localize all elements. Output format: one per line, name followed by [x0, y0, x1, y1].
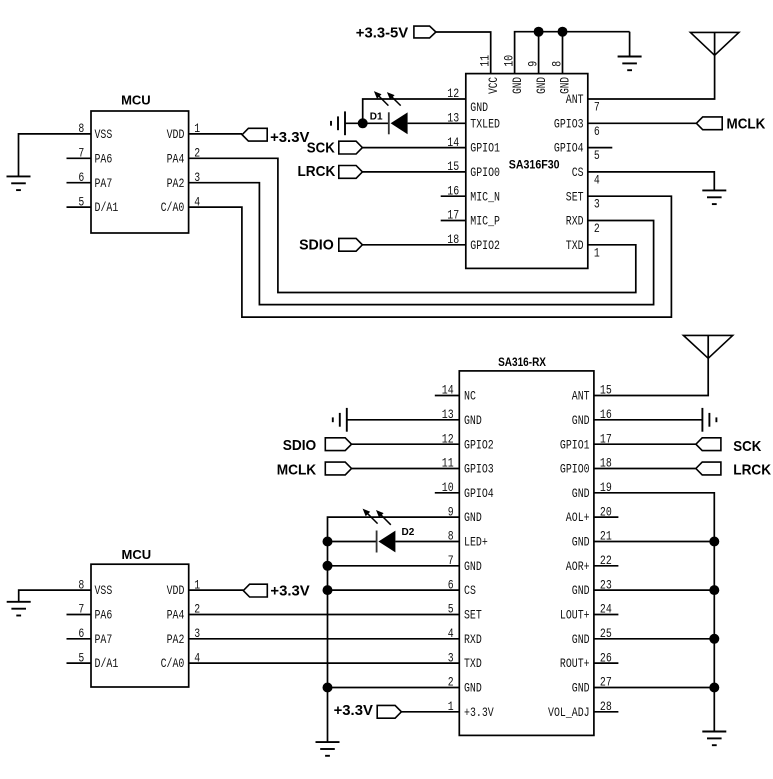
U3 pin 16 GND label [572, 413, 590, 428]
svg-text:MCU: MCU [122, 547, 152, 562]
wire SCK flag to U2 pin 14 [362, 147, 465, 149]
U2 pin 12 number [447, 86, 459, 101]
svg-text:PA7: PA7 [95, 176, 113, 191]
wire U2 pin 10 GND up [515, 32, 630, 74]
U3 pin 17 GPIO1 label [560, 437, 590, 452]
svg-text:C/A0: C/A0 [161, 200, 185, 215]
wire +3.3-5V flag to U2 VCC pin 11 [436, 32, 491, 74]
svg-text:SET: SET [566, 189, 584, 204]
label +3.3V (U4 VDD) [270, 582, 309, 599]
wire U3 pin 19 GND to right bus [594, 493, 714, 732]
U3 pin 14 NC label [464, 389, 476, 404]
label +3.3V (U1 VDD) [270, 129, 309, 146]
svg-text:SCK: SCK [307, 140, 335, 157]
U2 pin 4 CS label [572, 165, 584, 180]
IC U2 SA316F30 body [466, 74, 588, 269]
U4 pin 3 PA2 label [167, 632, 185, 647]
U1 pin 5 number [78, 194, 84, 209]
U1 pin 1 VDD label [167, 127, 185, 142]
port flag LRCK (bottom) [696, 462, 721, 475]
U3 pin 24 number [600, 602, 612, 617]
wire U2 pin 8 GND up [562, 32, 564, 74]
U3 pin 28 number [600, 699, 612, 714]
ground at U4 VSS [7, 601, 31, 615]
antenna E1 (top) [690, 32, 739, 55]
U1 pin 7 PA6 label [95, 151, 113, 166]
U2 pin 16 number [447, 183, 459, 198]
svg-text:3: 3 [594, 197, 600, 212]
wire U3 pin 21 GND to right bus [594, 541, 714, 543]
svg-text:RXD: RXD [566, 214, 584, 229]
U3 pin 20 AOL+ stub wire [594, 516, 619, 518]
svg-text:LOUT+: LOUT+ [560, 608, 590, 623]
wire U1 VSS to ground [19, 134, 92, 177]
svg-text:TXLED: TXLED [470, 116, 500, 131]
U4 pin 5 D/A1 label [95, 656, 119, 671]
U2 part name SA316F30 [509, 157, 560, 171]
svg-text:VOL_ADJ: VOL_ADJ [548, 705, 590, 720]
U3 pin 22 number [600, 553, 612, 568]
U3 pin 23 number [600, 577, 612, 592]
U3 pin 1 +3.3V label [464, 705, 494, 720]
wire left bus to D2 [328, 541, 377, 543]
U2 pin 2 number [594, 221, 600, 236]
U3 pin 21 GND label [572, 535, 590, 550]
U2 pin 1 TXD label [566, 238, 584, 253]
svg-text:PA6: PA6 [95, 608, 113, 623]
power flag +3.3V (U1 VDD) [242, 128, 267, 141]
svg-text:GPIO3: GPIO3 [464, 462, 494, 477]
wire net C/A0-SET [189, 196, 672, 317]
U4 pin 1 VDD label [167, 583, 185, 598]
junction left bus pin 6 row [323, 585, 333, 595]
wire U3 GPIO1 to SCK flag [594, 443, 696, 445]
label LRCK (top) [298, 163, 336, 180]
U2 pin 14 number [447, 135, 459, 150]
svg-text:4: 4 [594, 172, 600, 187]
svg-text:GND: GND [572, 681, 590, 696]
wire U2 pin 12 GND left [363, 99, 466, 123]
U3 pin 22 AOR+ stub wire [594, 565, 619, 567]
U4 pin 5 number [78, 650, 84, 665]
wire U3 pin 25 GND to right bus [594, 638, 714, 640]
junction right bus pin 23 row [709, 585, 719, 595]
wire junction to ground (left) [345, 122, 363, 124]
svg-text:ANT: ANT [572, 389, 590, 404]
U2 pin 15 GPIO0 label [470, 165, 500, 180]
svg-text:+3.3V: +3.3V [464, 705, 494, 720]
port flag SDIO to GPIO2 [339, 238, 363, 251]
U3 part name SA316-RX [498, 355, 546, 369]
wire LRCK flag to U2 pin 15 [362, 171, 465, 173]
U3 pin 21 number [600, 529, 612, 544]
svg-text:GND: GND [572, 535, 590, 550]
U2 pin 5 GPIO4 stub wire [588, 147, 613, 149]
U4 pin 1 number [194, 577, 200, 592]
wire net PA4-SET [189, 614, 460, 616]
wire left bus to U3 pin 2 GND [328, 687, 460, 689]
U2 pin 1 number [594, 245, 600, 260]
U3 pin 4 number [448, 626, 454, 641]
junction pin 8 top [558, 27, 568, 37]
svg-text:SA316F30: SA316F30 [509, 157, 560, 171]
svg-text:MIC_P: MIC_P [470, 214, 500, 229]
U3 pin 13 GND label [464, 413, 482, 428]
port flag SCK (bottom) [696, 438, 721, 451]
svg-text:VCC: VCC [486, 77, 501, 94]
U2 pin 18 number [447, 232, 459, 247]
svg-text:GPIO0: GPIO0 [470, 165, 500, 180]
U3 pin 18 number [600, 456, 612, 471]
U2 pin 17 number [447, 208, 459, 223]
ground (rotated left) at D1 [331, 111, 345, 135]
U3 pin 24 LOUT+ label [560, 608, 590, 623]
svg-text:PA7: PA7 [95, 632, 113, 647]
U3 pin 17 number [600, 431, 612, 446]
wire net PA4-TXD [189, 158, 636, 292]
U3 pin 12 number [442, 431, 454, 446]
svg-text:TXD: TXD [566, 238, 584, 253]
U3 pin 23 GND label [572, 583, 590, 598]
U3 pin 3 TXD label [464, 656, 482, 671]
svg-text:GPIO2: GPIO2 [464, 437, 494, 452]
U4 pin 6 number [78, 626, 84, 641]
svg-text:GND: GND [558, 77, 573, 94]
junction right bus pin 25 row [709, 634, 719, 644]
port flag SCK to GPIO1 [339, 141, 363, 154]
label SDIO (bottom) [283, 437, 317, 454]
wire U4 VDD to +3.3V flag [189, 589, 244, 591]
U4 pin 6 PA7 stub wire [67, 638, 92, 640]
label LRCK (bottom) [733, 461, 771, 478]
wire net PA2-RXD [189, 638, 460, 640]
junction right bus pin 21 row [709, 537, 719, 547]
svg-text:TXD: TXD [464, 656, 482, 671]
U2 top pin 9 rotated number [525, 61, 540, 67]
svg-text:4: 4 [448, 626, 454, 641]
U1 pin 6 PA7 stub wire [67, 182, 92, 184]
D2 emission arrow 1 [363, 509, 378, 524]
svg-text:SDIO: SDIO [299, 236, 334, 253]
D1 emission arrow 1 [374, 91, 389, 106]
svg-text:RXD: RXD [464, 632, 482, 647]
svg-text:GPIO2: GPIO2 [470, 238, 500, 253]
U2 pin 6 number [594, 124, 600, 139]
U2 pin 12 GND label [470, 100, 488, 115]
MCU U4 (bottom) body [91, 564, 189, 687]
U2 top pin 11 rotated number [478, 55, 493, 67]
label D1 [370, 111, 383, 122]
U1 pin 7 PA6 stub wire [67, 157, 92, 159]
wire net C/A0-TXD [189, 662, 460, 664]
svg-text:D2: D2 [402, 527, 415, 538]
U4 pin 7 PA6 label [95, 608, 113, 623]
svg-text:AOR+: AOR+ [566, 559, 590, 574]
U2 top pin 10 rotated number [501, 55, 516, 67]
U3 pin 26 ROUT+ stub wire [594, 662, 619, 664]
U4 pin 8 VSS label [95, 583, 113, 598]
U2 pin 3 SET label [566, 189, 584, 204]
U3 pin 14 NC stub wire [435, 395, 460, 397]
U2 top pin 8 GND rotated label [558, 77, 573, 94]
IC U3 SA316-RX body [459, 371, 594, 736]
svg-text:LED+: LED+ [464, 535, 488, 550]
wire left bus to U3 pin 6 CS [328, 589, 460, 591]
MCU U4 title [122, 547, 152, 562]
port flag SDIO to U3 GPIO2 [325, 438, 351, 451]
U4 pin 2 PA4 label [167, 608, 185, 623]
svg-text:CS: CS [464, 583, 476, 598]
U3 pin 25 GND label [572, 632, 590, 647]
U3 pin 11 GPIO3 label [464, 462, 494, 477]
ground at right bus bottom [702, 731, 726, 745]
svg-text:MCLK: MCLK [277, 461, 317, 478]
svg-text:SA316-RX: SA316-RX [498, 355, 546, 369]
U1 pin 2 number [194, 146, 200, 161]
U3 pin 4 RXD label [464, 632, 482, 647]
label SCK (top) [307, 140, 335, 157]
U1 pin 4 number [194, 194, 200, 209]
U3 pin 15 ANT label [572, 389, 590, 404]
U1 pin 6 PA7 label [95, 176, 113, 191]
U3 pin 20 AOL+ label [566, 510, 590, 525]
U3 pin 5 SET label [464, 608, 482, 623]
wire SDIO flag to U2 pin 18 [362, 244, 465, 246]
wire left bus to U3 pin 7 GND [328, 565, 460, 567]
ground at U1 VSS [7, 176, 31, 190]
U2 pin 5 number [594, 148, 600, 163]
U2 top pin 11 VCC rotated label [486, 77, 501, 94]
U3 pin 15 number [600, 383, 612, 398]
svg-text:LRCK: LRCK [733, 461, 771, 478]
U3 pin 6 number [448, 577, 454, 592]
svg-text:CS: CS [572, 165, 584, 180]
wire +3.3V flag to U3 pin 1 [401, 711, 459, 713]
wire D1 to U2 pin 13 TXLED [408, 122, 466, 124]
U3 pin 27 GND label [572, 681, 590, 696]
U4 pin 7 PA6 stub wire [67, 614, 92, 616]
junction D1 anode [358, 118, 368, 128]
wire U2 pin 9 GND up [538, 32, 540, 74]
U1 pin 5 D/A1 stub wire [67, 206, 92, 208]
svg-text:VSS: VSS [95, 127, 113, 142]
svg-text:GND: GND [464, 510, 482, 525]
U3 pin 26 number [600, 650, 612, 665]
U1 pin 1 number [194, 121, 200, 136]
U4 pin 8 number [78, 577, 84, 592]
U3 pin 5 number [448, 602, 454, 617]
U3 pin 22 AOR+ label [566, 559, 590, 574]
antenna E2 (bottom) [683, 335, 732, 358]
svg-text:NC: NC [464, 389, 476, 404]
U3 pin 6 CS label [464, 583, 476, 598]
wire MCLK flag to U3 pin 11 [352, 468, 460, 470]
wire U1 VDD to +3.3V flag [189, 133, 243, 135]
U3 pin 25 number [600, 626, 612, 641]
ground at U2 CS [702, 190, 726, 204]
wire U3 ANT to antenna [594, 335, 708, 395]
U2 top pin 8 rotated number [549, 61, 564, 67]
U3 pin 2 number [448, 675, 454, 690]
U1 pin 7 number [78, 146, 84, 161]
svg-text:GND: GND [464, 413, 482, 428]
U3 pin 16 number [600, 407, 612, 422]
wire net PA2-RXD [189, 183, 654, 305]
svg-text:PA2: PA2 [167, 176, 185, 191]
U3 pin 8 LED+ label [464, 535, 488, 550]
wire U2 CS to ground [588, 172, 715, 191]
U2 pin 13 TXLED label [470, 116, 500, 131]
U3 pin 24 LOUT+ stub wire [594, 614, 619, 616]
svg-text:D/A1: D/A1 [95, 656, 119, 671]
D2 emission arrow 2 [376, 510, 391, 525]
ground (rotated right) at U3 pin 16 [702, 408, 716, 432]
U2 pin 2 RXD label [566, 214, 584, 229]
svg-text:PA2: PA2 [167, 632, 185, 647]
svg-text:PA6: PA6 [95, 151, 113, 166]
U3 pin 10 number [442, 480, 454, 495]
port flag LRCK to GPIO0 [339, 166, 363, 179]
U1 pin 4 C/A0 label [161, 200, 185, 215]
U2 pin 17 MIC_P label [470, 214, 500, 229]
MCU U1 title [121, 93, 151, 108]
svg-text:LRCK: LRCK [298, 163, 336, 180]
U4 pin 6 PA7 label [95, 632, 113, 647]
U2 top pin 9 GND rotated label [534, 77, 549, 94]
U2 pin 15 number [447, 159, 459, 174]
ground at top GND net [618, 32, 642, 70]
svg-text:GPIO0: GPIO0 [560, 462, 590, 477]
U3 pin 10 GPIO4 stub wire [435, 492, 460, 494]
U2 pin 5 GPIO4 label [554, 141, 584, 156]
U2 pin 7 ANT label [566, 92, 584, 107]
wire U3 pin 9 GND to left bus [328, 517, 460, 742]
U4 pin 5 D/A1 stub wire [67, 662, 92, 664]
U1 pin 5 D/A1 label [95, 200, 119, 215]
svg-text:D/A1: D/A1 [95, 200, 119, 215]
svg-text:5: 5 [448, 602, 454, 617]
U3 pin 18 GPIO0 label [560, 462, 590, 477]
port flag MCLK (top) [696, 117, 722, 130]
power flag +3.3V (U4 VDD) [243, 584, 267, 597]
U2 pin 13 number [447, 111, 459, 126]
svg-text:D1: D1 [370, 111, 383, 122]
wire D2 to U3 pin 8 LED+ [395, 541, 459, 543]
wire U3 pin 23 GND to right bus [594, 589, 714, 591]
junction left bus pin 8 row [323, 537, 333, 547]
U2 pin 18 GPIO2 label [470, 238, 500, 253]
svg-text:GND: GND [534, 77, 549, 94]
svg-text:GND: GND [572, 486, 590, 501]
svg-text:GPIO1: GPIO1 [470, 141, 500, 156]
svg-text:GND: GND [572, 632, 590, 647]
ground (rotated left) at U3 pin 13 [333, 408, 347, 432]
svg-text:GND: GND [464, 681, 482, 696]
svg-text:+3.3V: +3.3V [270, 582, 309, 599]
U3 pin 1 number [448, 699, 454, 714]
ground at left bus bottom [316, 742, 340, 756]
svg-text:1: 1 [594, 245, 600, 260]
svg-text:GND: GND [464, 559, 482, 574]
U1 pin 8 number [78, 121, 84, 136]
label MCLK (bottom) [277, 461, 317, 478]
U2 top pin 10 GND rotated label [510, 77, 525, 94]
wire U3 pin 27 GND to right bus [594, 687, 714, 689]
svg-text:VDD: VDD [167, 127, 185, 142]
junction pin 9 top [534, 27, 544, 37]
U1 pin 3 number [194, 170, 200, 185]
svg-text:3: 3 [448, 650, 454, 665]
svg-text:GND: GND [572, 413, 590, 428]
U3 pin 14 number [442, 383, 454, 398]
label SCK (bottom) [733, 438, 761, 455]
label SDIO (top) [299, 236, 334, 253]
U2 pin 3 number [594, 197, 600, 212]
LED D2 [377, 531, 396, 553]
svg-text:6: 6 [594, 124, 600, 139]
U3 pin 10 GPIO4 label [464, 486, 494, 501]
svg-text:SCK: SCK [733, 438, 761, 455]
wire junction to D1 cathode [363, 122, 389, 124]
U3 pin 27 number [600, 675, 612, 690]
wire U2 ANT to antenna [588, 32, 715, 99]
svg-text:VDD: VDD [167, 583, 185, 598]
U3 pin 7 number [448, 553, 454, 568]
U3 pin 19 number [600, 480, 612, 495]
U3 pin 12 GPIO2 label [464, 437, 494, 452]
U3 pin 13 number [442, 407, 454, 422]
svg-text:MCU: MCU [121, 93, 151, 108]
D1 emission arrow 2 [387, 92, 401, 106]
U2 pin 6 GPIO3 label [554, 116, 584, 131]
U3 pin 7 GND label [464, 559, 482, 574]
label MCLK (top) [727, 115, 766, 132]
svg-text:7: 7 [594, 100, 600, 115]
label +3.3-5V [356, 24, 408, 41]
U2 pin 7 number [594, 100, 600, 115]
svg-text:GND: GND [510, 77, 525, 94]
U3 pin 8 number [448, 529, 454, 544]
U3 pin 9 number [448, 504, 454, 519]
U2 pin 16 MIC_N stub wire [441, 195, 466, 197]
MCU U1 (top) body [91, 111, 189, 233]
svg-text:+3.3V: +3.3V [334, 702, 373, 719]
svg-text:GPIO4: GPIO4 [554, 141, 584, 156]
U1 pin 3 PA2 label [167, 176, 185, 191]
svg-text:MCLK: MCLK [727, 115, 766, 132]
U3 pin 19 GND label [572, 486, 590, 501]
wire SDIO flag to U3 pin 12 [352, 443, 460, 445]
U2 pin 16 MIC_N label [470, 189, 500, 204]
junction left bus pin 7 row [323, 561, 333, 571]
svg-text:GPIO1: GPIO1 [560, 437, 590, 452]
svg-text:ROUT+: ROUT+ [560, 656, 590, 671]
junction right bus pin 27 row [709, 683, 719, 693]
svg-text:C/A0: C/A0 [161, 656, 185, 671]
svg-text:GPIO4: GPIO4 [464, 486, 494, 501]
svg-text:MIC_N: MIC_N [470, 189, 500, 204]
wire U2 GPIO3 to MCLK flag [588, 122, 697, 124]
svg-text:2: 2 [594, 221, 600, 236]
svg-text:VSS: VSS [95, 583, 113, 598]
U1 pin 8 VSS label [95, 127, 113, 142]
U2 pin 4 number [594, 172, 600, 187]
power flag +3.3-5V [414, 26, 436, 38]
svg-text:5: 5 [594, 148, 600, 163]
LED D1 [389, 112, 408, 134]
wire U3 pin 13 GND left [347, 419, 460, 421]
U4 pin 4 number [194, 650, 200, 665]
